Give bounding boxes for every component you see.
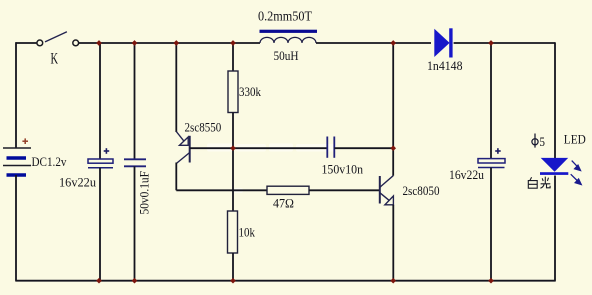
wire left rail upper [15,42,17,148]
svg-text:2sc8050: 2sc8050 [403,184,440,198]
svg-text:2sc8550: 2sc8550 [185,120,222,134]
resistor R1 330k [228,71,238,113]
wire capacitor C4 column upper [490,43,492,158]
node top rail junction x491 [488,40,494,46]
wire 330k to base row [232,113,234,149]
node bottom rail junction x491 [488,278,494,284]
inductor L1 core bar [260,30,318,33]
wire right rail upper [554,42,556,158]
wire capacitor C4 column lower [490,168,492,281]
node top rail junction x393 [390,40,396,46]
wire base row Q1 to C3 [190,147,327,149]
LED D2 [540,158,568,175]
diode D1 1n4148 [434,28,452,57]
svg-text:150v10n: 150v10n [322,161,364,176]
wire Q2 emitter column [392,205,394,281]
wire Q1 collector column [175,163,177,191]
wire capacitor C1 column upper [99,43,101,159]
wire 47R row right [309,189,380,191]
wire left rail lower [15,175,17,281]
capacitor C2 50v0.1uF [124,159,146,166]
svg-text:47Ω: 47Ω [273,195,294,210]
node top rail junction x233 [230,40,236,46]
label phi5 [532,134,538,148]
svg-text:5: 5 [539,134,545,149]
wire top rail middle segment [78,42,260,44]
wire right rail lower [554,176,556,281]
capacitor C4 plus sign [495,148,501,154]
transistor Q1 2sc8550 [176,132,189,164]
svg-text:50v0.1uF: 50v0.1uF [138,171,152,215]
capacitor C1 plus sign [104,148,110,154]
wire top rail left segment [16,42,38,44]
capacitor C3 150v10n [327,137,334,158]
node top rail junction x176 [173,40,179,46]
wire top rail after inductor [316,42,431,44]
svg-text:1n4148: 1n4148 [427,58,463,73]
svg-text:0.2mm50T: 0.2mm50T [258,10,312,25]
wire capacitor C1 column lower [99,168,101,281]
label baiguang white light [528,177,550,189]
resistor R3 10k [228,211,238,253]
wire transistor Q1 emitter column [175,43,177,132]
node bottom rail junction x134 [132,278,138,284]
wire 47R row left [176,189,267,191]
switch K [37,32,79,46]
node bottom rail junction x233 [230,278,236,284]
wire 10k column upper [232,148,234,211]
inductor L1 coil [260,37,316,43]
wire capacitor C2 column upper [134,43,136,159]
node base row junction x233 [230,145,236,151]
battery plus sign [22,138,28,144]
LED light arrows [571,161,582,185]
svg-text:16v22u: 16v22u [449,167,484,182]
capacitor C1 16v22u [88,159,113,168]
svg-text:K: K [51,50,59,67]
svg-text:10k: 10k [239,224,256,239]
node base row junction x393 [390,145,396,151]
wire capacitor C2 column lower [134,166,136,280]
svg-text:LED: LED [564,132,586,147]
node top rail junction x134 [132,40,138,46]
wire Q2 collector column [392,43,394,176]
svg-text:16v22u: 16v22u [59,174,96,189]
svg-text:330k: 330k [239,84,261,99]
resistor R2 47R [267,186,309,194]
wire bottom rail [15,280,555,282]
battery B1 DC1.2v [3,148,31,175]
svg-text:DC1.2v: DC1.2v [32,154,67,169]
node top rail junction x99 [96,40,102,46]
capacitor C4 16v22u [478,159,505,168]
transistor Q2 2sc8050 [380,176,394,205]
wire top rail after diode [454,42,555,44]
svg-text:50uH: 50uH [274,48,299,63]
node bottom rail junction x99 [96,278,102,284]
wire base row C3 to Q2 column [334,147,393,149]
wire 330k column top [232,43,234,71]
node bottom rail junction x392 [390,278,396,284]
wire 10k column lower [232,253,234,281]
